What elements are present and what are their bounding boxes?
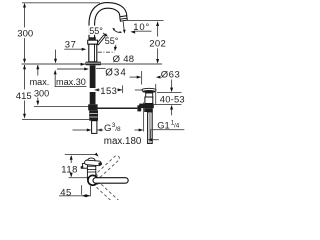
supply hose to right	[98, 107, 138, 109]
reference line 415 bottom	[22, 118, 89, 120]
reference line max300	[34, 105, 89, 107]
dim118 line	[70, 156, 72, 163]
leader 37	[64, 48, 82, 50]
stream arrow down	[123, 30, 126, 34]
arrow down 300	[23, 59, 26, 64]
lever handle	[96, 35, 105, 45]
svg-text:/4: /4	[174, 122, 180, 129]
mini faucet lever tip	[98, 162, 102, 165]
lower hose nut	[89, 110, 98, 120]
arrow down 202	[156, 59, 159, 64]
svg-text:153: 153	[100, 86, 117, 97]
svg-text:300: 300	[34, 88, 49, 98]
arrow down 415	[23, 114, 26, 119]
mini faucet lever	[84, 160, 101, 166]
dimension 153 left arrow	[94, 88, 99, 91]
svg-text:40-53: 40-53	[160, 94, 185, 105]
svg-text:Ø34: Ø34	[105, 68, 127, 79]
svg-text:45: 45	[60, 188, 71, 199]
mini faucet spout outlet	[81, 166, 84, 169]
body cap	[88, 40, 98, 44]
svg-text:G: G	[104, 123, 111, 134]
top reference line	[22, 2, 100, 4]
overflow connector band	[139, 104, 154, 109]
leader 55 upper	[103, 33, 107, 36]
top view lever bar	[93, 178, 128, 184]
max180 dim inner left arrow	[97, 129, 102, 132]
label diameter 34 leader	[96, 67, 105, 69]
dim45 arrow left	[82, 194, 87, 197]
lever centerline	[98, 51, 115, 53]
svg-text:Ø 48: Ø 48	[113, 54, 135, 65]
svg-text:max.: max.	[30, 77, 50, 87]
max30 leader vertical lower	[54, 74, 56, 87]
dim118 tip arrow	[94, 153, 98, 157]
counter top arrow	[81, 63, 86, 66]
dim45 arrow right	[86, 194, 91, 197]
hose junction block	[88, 104, 97, 110]
body inner tube line	[94, 44, 96, 62]
max30 underline	[55, 86, 87, 88]
hose end nut G38	[137, 105, 141, 111]
tail pipe	[148, 112, 153, 144]
dim118 top extension	[65, 154, 96, 156]
dimension max.300 vertical line	[37, 65, 39, 105]
dimension 153 right arrow	[117, 89, 122, 91]
diameter 63 left arrow	[130, 76, 141, 78]
mini faucet spout stub	[83, 163, 88, 168]
swivel dashed lever up	[96, 155, 121, 179]
spout outlet mousseur	[120, 16, 128, 22]
arrow up 118	[70, 155, 73, 160]
arrow up 415	[23, 65, 26, 70]
40-53 arrow up	[171, 108, 173, 115]
svg-text:/8: /8	[115, 126, 121, 133]
svg-text:max.30: max.30	[56, 77, 86, 87]
max30 arrow up	[54, 70, 57, 75]
shank gap for 153 arrow	[89, 88, 96, 92]
arrow up 300	[23, 3, 26, 8]
label 55 upper backing	[89, 26, 107, 35]
svg-text:G1: G1	[157, 120, 169, 130]
max30 leader vertical upper	[55, 50, 57, 60]
153 extension tick	[122, 85, 124, 93]
dim45 line	[59, 195, 91, 197]
leader 55 lower	[114, 45, 117, 48]
spout arc inner	[95, 8, 120, 40]
arrow down max300	[36, 101, 39, 106]
arrow up 202	[156, 21, 159, 26]
faucet body	[89, 44, 97, 62]
stream direction line	[122, 22, 125, 31]
dim45 ext right	[89, 186, 91, 196]
svg-text:max.180: max.180	[104, 136, 142, 147]
10 deg reference line	[127, 20, 163, 22]
threaded shank	[90, 65, 96, 104]
base flange	[85, 62, 101, 66]
waste body	[145, 97, 153, 104]
mini faucet knob	[87, 158, 95, 164]
svg-text:202: 202	[149, 38, 166, 49]
dim118 bottom extension	[69, 177, 89, 179]
counter underside line	[57, 68, 85, 70]
max180 right extension line	[143, 103, 145, 132]
waste neck	[146, 93, 153, 97]
max180 dim left outside arrow	[73, 129, 88, 131]
dimension 202	[157, 22, 159, 36]
mini faucet body	[87, 166, 95, 179]
G1 leader arrow	[151, 139, 159, 141]
svg-text:118: 118	[61, 164, 78, 175]
counter top line	[22, 63, 163, 65]
svg-text:55°: 55°	[105, 36, 119, 46]
40-53 top extension	[157, 91, 182, 93]
max180 dim right arrow	[135, 129, 143, 131]
40-53 bottom extension	[154, 104, 182, 106]
G1 leader vertical	[150, 130, 152, 140]
counter underside arrow	[84, 68, 89, 71]
dimension 415 vertical line	[24, 65, 26, 118]
svg-text:Ø63: Ø63	[161, 70, 181, 81]
pop-up rod	[92, 121, 97, 134]
basin line at drain	[135, 89, 142, 91]
top view ring	[88, 175, 98, 185]
lock nut	[144, 108, 153, 112]
arrow down 118	[70, 173, 73, 178]
swivel dashed lever down	[96, 182, 121, 206]
arrow up max300	[36, 65, 39, 70]
40-53 arrow down	[171, 80, 173, 89]
tail pipe thread line	[149, 112, 151, 144]
label 10 underline leader	[135, 30, 152, 32]
angle arc 10	[113, 29, 121, 33]
pop-up waste cap	[142, 88, 156, 91]
svg-text:300: 300	[17, 29, 33, 40]
G1 underline	[151, 129, 185, 131]
spout joint ring	[89, 37, 96, 40]
dim45 ext left	[81, 185, 83, 195]
max30 arrow down	[54, 59, 57, 64]
dimension 300 vertical line	[24, 4, 26, 62]
diameter 63 left tick	[141, 71, 143, 85]
svg-text:415: 415	[16, 91, 32, 102]
svg-text:55°: 55°	[89, 26, 103, 36]
spout arc outer	[89, 3, 127, 41]
diameter 63 right tick	[155, 84, 157, 105]
diameter 63 right arrow	[156, 76, 161, 79]
